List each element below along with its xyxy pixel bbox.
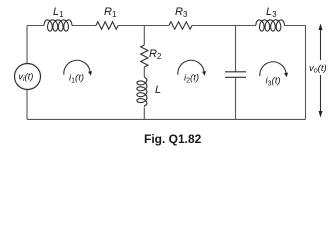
svg-text:R3: R3 <box>175 6 188 19</box>
svg-text:i1(t): i1(t) <box>69 73 84 85</box>
svg-text:vi(t): vi(t) <box>18 71 33 83</box>
svg-text:L3: L3 <box>266 6 277 19</box>
svg-text:L: L <box>155 84 161 96</box>
svg-text:vo(t): vo(t) <box>309 63 327 75</box>
svg-text:i2(t): i2(t) <box>184 73 199 85</box>
svg-text:i3(t): i3(t) <box>266 76 281 88</box>
svg-text:L1: L1 <box>53 6 64 19</box>
svg-text:R1: R1 <box>104 6 117 19</box>
svg-text:R2: R2 <box>149 48 162 61</box>
svg-text:Fig. Q1.82: Fig. Q1.82 <box>144 132 202 146</box>
